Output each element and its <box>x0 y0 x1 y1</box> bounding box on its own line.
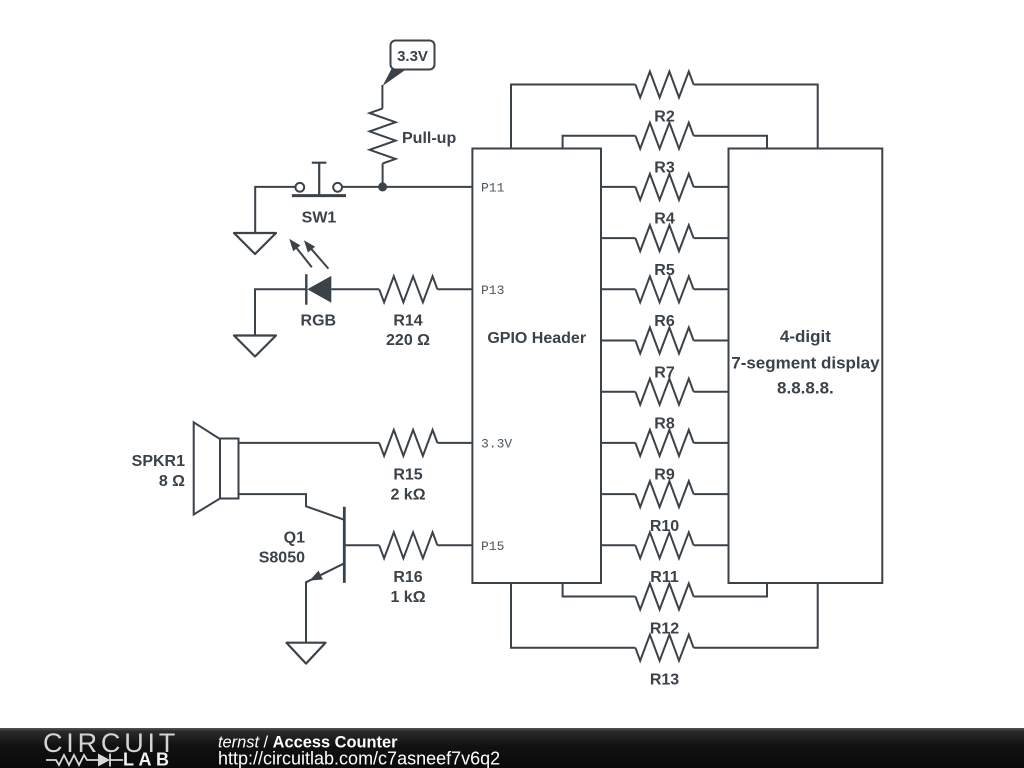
svg-text:R2: R2 <box>654 108 675 125</box>
node junction at P11 wire <box>378 182 387 191</box>
svg-text:S8050: S8050 <box>259 550 305 567</box>
svg-text:R14: R14 <box>393 312 422 329</box>
LED RGB <box>289 239 336 329</box>
IC GPIO Header <box>472 149 601 584</box>
resistor R8 <box>601 379 729 433</box>
wire SW1 left to ground <box>255 187 295 233</box>
svg-text:R3: R3 <box>654 160 675 177</box>
svg-text:R5: R5 <box>654 262 675 279</box>
pin label P13 <box>481 283 504 298</box>
resistor R12 <box>563 583 767 637</box>
svg-text:P13: P13 <box>481 283 504 298</box>
svg-text:1 kΩ: 1 kΩ <box>390 589 425 606</box>
resistor R16 1k <box>379 532 472 606</box>
resistor R5 <box>601 225 729 279</box>
ground (LED) <box>234 336 276 357</box>
logo resistor-diode squiggle <box>46 754 123 767</box>
svg-text:220 Ω: 220 Ω <box>386 332 430 349</box>
svg-text:SW1: SW1 <box>302 209 337 226</box>
svg-text:8.8.8.8.: 8.8.8.8. <box>777 378 834 397</box>
resistor R14 220 <box>379 276 472 349</box>
resistor R11 <box>601 532 729 586</box>
svg-text:P11: P11 <box>481 181 505 196</box>
svg-text:3.3V: 3.3V <box>481 437 512 452</box>
resistor R4 <box>601 174 729 228</box>
svg-text:R9: R9 <box>654 467 675 484</box>
resistor R10 <box>601 481 729 535</box>
pin label P11 <box>481 181 505 196</box>
svg-text:R8: R8 <box>654 416 675 433</box>
svg-text:4-digit: 4-digit <box>780 327 831 346</box>
svg-text:8 Ω: 8 Ω <box>159 473 185 490</box>
svg-text:R12: R12 <box>650 620 679 637</box>
wire LED to R14 <box>331 288 379 290</box>
IC 4-digit 7-segment display U2 <box>729 149 883 584</box>
svg-text:R11: R11 <box>650 569 679 586</box>
CircuitLab logo CIRCUIT <box>43 728 179 758</box>
svg-text:http://circuitlab.com/c7asneef: http://circuitlab.com/c7asneef7v6q2 <box>218 749 500 768</box>
wire LED left to ground <box>255 289 306 335</box>
svg-text:R16: R16 <box>393 569 422 586</box>
pin label P15 <box>481 539 504 554</box>
svg-text:LAB: LAB <box>123 750 174 768</box>
resistor Pull-up <box>370 109 457 187</box>
resistor R2 <box>511 72 818 149</box>
ground (SW1) <box>234 233 276 254</box>
footer bar <box>0 728 1024 768</box>
svg-text:Pull-up: Pull-up <box>402 130 456 147</box>
switch SW1 <box>292 163 346 227</box>
speaker SPKR1 <box>132 422 239 514</box>
svg-text:3.3V: 3.3V <box>397 48 428 65</box>
wire speaker bottom to Q1 collector <box>239 494 345 520</box>
svg-text:Q1: Q1 <box>284 529 305 546</box>
resistor R15 2k <box>379 430 472 504</box>
ground (Q1 emitter) <box>287 643 326 664</box>
CircuitLab logo LAB <box>123 750 174 768</box>
svg-text:R13: R13 <box>650 672 679 689</box>
svg-text:P15: P15 <box>481 539 504 554</box>
svg-text:2 kΩ: 2 kΩ <box>390 487 425 504</box>
resistor R7 <box>601 328 729 382</box>
transistor Q1 S8050 <box>259 507 345 643</box>
footer url <box>218 749 500 768</box>
wire Q1 base to R16 <box>344 544 379 546</box>
svg-text:RGB: RGB <box>301 312 337 329</box>
power flag 3.3V <box>383 41 435 87</box>
resistor R9 <box>601 430 729 484</box>
svg-text:SPKR1: SPKR1 <box>132 453 185 470</box>
wire SW1 right to P11 <box>342 186 472 188</box>
resistor R13 <box>511 583 818 689</box>
footer title ternst / Access Counter <box>218 734 398 752</box>
resistor R3 <box>563 123 767 177</box>
resistor R6 <box>601 276 729 330</box>
pin label 3.3V <box>481 437 512 452</box>
svg-text:R6: R6 <box>654 313 675 330</box>
svg-text:R7: R7 <box>654 364 675 381</box>
svg-text:GPIO Header: GPIO Header <box>487 330 586 347</box>
wire flag to pull-up <box>381 85 383 109</box>
wire speaker top to R15 <box>239 442 380 444</box>
svg-text:R4: R4 <box>654 211 675 228</box>
svg-text:7-segment display: 7-segment display <box>731 353 880 372</box>
svg-text:R15: R15 <box>393 467 422 484</box>
svg-text:R10: R10 <box>650 518 679 535</box>
